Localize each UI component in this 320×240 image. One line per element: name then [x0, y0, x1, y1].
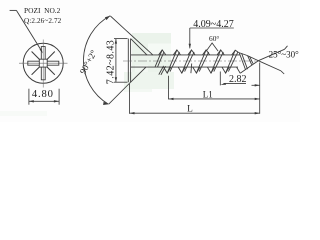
cone top flank	[131, 39, 147, 55]
pozidriv right wing	[47, 61, 59, 65]
2.82 right arrowhead	[255, 84, 260, 86]
arc bottom arrowhead	[103, 102, 108, 105]
60 deg V callout	[206, 43, 218, 51]
7.42 bottom arrow	[115, 77, 117, 82]
watermark bottom-left band	[0, 111, 47, 116]
svg-text:2.82: 2.82	[229, 74, 247, 85]
svg-text:L1: L1	[203, 89, 213, 99]
4.09-4.27 leader vertical	[189, 28, 191, 48]
bottom flank extension	[109, 82, 131, 104]
svg-text:7.42~8.43: 7.42~8.43	[105, 40, 116, 84]
L1 right arrow	[255, 98, 260, 100]
svg-text:4.80: 4.80	[32, 89, 54, 100]
4.80 extension left	[28, 89, 30, 105]
4.80 extension right	[58, 89, 60, 105]
4.09 leader arrowhead	[189, 44, 191, 49]
svg-text:60°: 60°	[209, 34, 219, 43]
2.82 right stub	[252, 84, 260, 86]
center line vertical	[42, 40, 44, 88]
arc top arrowhead	[105, 16, 110, 20]
tip fin 1	[239, 53, 247, 70]
watermark notch light 2	[135, 65, 148, 78]
pozidriv diagonal LL	[32, 67, 40, 75]
pozidriv diagonal LR	[47, 67, 55, 75]
center line horizontal	[19, 62, 68, 64]
4.09-4.27 leader horizontal	[190, 27, 234, 29]
7.42-8.43 ext top	[114, 38, 128, 40]
thread detail line	[190, 64, 193, 74]
watermark lower band	[124, 72, 174, 89]
L1 left arrow	[169, 98, 174, 100]
lower ray end tick	[281, 71, 284, 74]
thread helix slants	[167, 50, 238, 73]
thread first partial slant	[155, 50, 164, 67]
pozidriv diagonal UL	[32, 52, 40, 60]
tip extension line	[259, 63, 261, 114]
L dim line	[130, 112, 260, 114]
tip top outline	[239, 53, 259, 61]
leader line	[16, 10, 40, 49]
4.80 left arrow	[29, 100, 34, 102]
7.42-8.43 ext bottom	[114, 81, 128, 83]
pozidriv left wing	[28, 61, 40, 65]
7.42-8.43 dim line	[115, 39, 117, 83]
axis center line	[123, 60, 258, 62]
upper ray end tick	[285, 46, 288, 50]
L1 extension line	[168, 76, 170, 100]
L right arrow	[255, 112, 260, 114]
L1 dim line	[169, 98, 260, 100]
thread crest triangles top	[159, 50, 239, 55]
svg-text:Q:2.26~2.72: Q:2.26~2.72	[24, 17, 62, 25]
L left extension line	[129, 84, 131, 114]
head circle (front view)	[23, 43, 63, 83]
thread start fin	[159, 66, 166, 75]
head face double line	[127, 39, 129, 83]
svg-text:25°~30°: 25°~30°	[269, 49, 299, 59]
shank bottom line	[131, 66, 238, 68]
svg-text:POZI NO.2: POZI NO.2	[24, 6, 61, 15]
watermark lower stub	[124, 89, 152, 92]
2.82 underline	[224, 82, 247, 84]
2.82 extension line	[219, 72, 221, 86]
tip bottom outline	[240, 61, 258, 73]
leader arrowhead	[40, 49, 43, 54]
2.82 left arrowhead	[220, 83, 226, 85]
watermark main block	[132, 33, 171, 78]
90 deg flank reference line	[110, 16, 153, 55]
90 deg dimension arc	[83, 16, 110, 104]
shank top line	[131, 54, 240, 56]
L left arrow	[130, 112, 135, 114]
cone bottom flank	[131, 67, 146, 82]
pozidriv bottom wing	[41, 67, 45, 80]
25-30 deg lower ray	[258, 61, 281, 71]
pozidriv top wing	[41, 47, 45, 60]
svg-text:4.09~4.27: 4.09~4.27	[193, 19, 233, 30]
thread crest triangles bottom	[164, 67, 241, 73]
4.80 dim line	[29, 100, 59, 102]
25-30 deg upper ray	[258, 49, 284, 60]
7.42 top arrow	[115, 39, 117, 44]
watermark notch light 1	[148, 44, 171, 55]
pozidriv center square	[39, 59, 47, 67]
pozidriv diagonal UR	[47, 52, 55, 60]
4.80 right arrow	[54, 100, 59, 102]
tip fin 2	[248, 56, 253, 65]
leader tick	[10, 9, 17, 11]
svg-text:L: L	[187, 105, 193, 115]
